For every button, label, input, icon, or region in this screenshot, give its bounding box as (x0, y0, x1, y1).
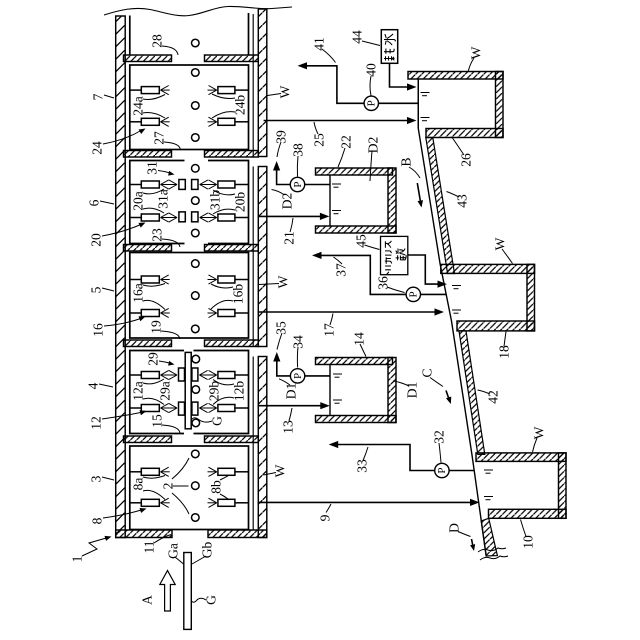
flow arrow chute B (417, 183, 420, 203)
pipe 39 with pump 38 (D2 supply) (305, 184, 330, 186)
baffle bar between chambers 7/6 right (205, 151, 259, 158)
svg-text:6: 6 (87, 199, 102, 206)
svg-text:D2: D2 (366, 137, 381, 154)
svg-text:29b: 29b (207, 381, 222, 402)
kana: alkali, acid (rotated) (385, 241, 406, 274)
pipe 25 (chamber 7 drain to tank 26) (264, 120, 408, 122)
spray nozzles 24a/24b (130, 87, 249, 126)
inner liner line along right wall (252, 14, 254, 530)
svg-text:20b: 20b (233, 192, 248, 213)
svg-text:C: C (420, 368, 435, 377)
glass substrate G (184, 553, 192, 630)
pure-water supply box 44 (381, 30, 397, 64)
svg-text:Ga: Ga (166, 543, 181, 559)
svg-text:26: 26 (459, 153, 474, 167)
bottom wall left (hatched) (116, 530, 172, 538)
svg-text:D: D (447, 523, 462, 533)
brush assembly 29 (chamber 4) (179, 368, 198, 415)
tank 14 (D1) top wall (316, 358, 393, 365)
chamber 6 box (130, 161, 249, 244)
tank 22 (D2) interior left edge (329, 175, 331, 226)
break line at chute D end (478, 548, 508, 560)
svg-text:31: 31 (145, 161, 160, 175)
chamber 4 box (130, 351, 249, 434)
svg-text:29: 29 (146, 352, 161, 366)
svg-text:34: 34 (291, 335, 306, 349)
tank 14 (D1) right wall (388, 358, 396, 423)
svg-text:21: 21 (282, 231, 297, 245)
baffle bar between chambers 4/3 left (124, 436, 172, 443)
drain chute D (hatched wall) (481, 518, 497, 556)
svg-text:P: P (292, 373, 304, 379)
wall left outer (hatched) (116, 16, 126, 538)
chamber 28 side edges (130, 13, 249, 55)
tank 26 bottom wall (426, 129, 503, 138)
pipe 17 (chamber 5 drain to tank 18) (258, 311, 436, 313)
chamber 3 box (130, 446, 249, 530)
svg-text:D2: D2 (280, 193, 295, 210)
svg-text:37: 37 (334, 263, 349, 277)
tank 22 (D2) top wall (316, 168, 393, 175)
conveyor rollers 2 (circles) (192, 39, 200, 521)
svg-text:1: 1 (70, 556, 85, 563)
svg-text:10: 10 (521, 535, 536, 549)
baffle bar above chamber 7 right (205, 55, 259, 62)
tank 14 (D1) bottom wall (316, 416, 397, 423)
svg-text:31a: 31a (156, 189, 171, 209)
svg-text:19: 19 (149, 320, 164, 334)
svg-text:35: 35 (274, 321, 289, 335)
rollers on bar (chamber 4) (192, 355, 200, 426)
svg-text:23: 23 (150, 228, 165, 242)
svg-text:17: 17 (322, 323, 337, 337)
pump 38 (290, 177, 304, 191)
spray nozzles 12a/12b (130, 372, 249, 412)
tank 14 (D1) interior left edge (329, 365, 331, 416)
baffle bar between chambers 7/6 left (124, 151, 172, 158)
svg-text:D1: D1 (284, 383, 299, 400)
glass holder bar G (chamber 4) (185, 352, 191, 428)
svg-text:W: W (493, 237, 508, 250)
svg-text:P: P (408, 291, 420, 297)
pump 32 (435, 463, 449, 477)
cascade inner guide line (chutes B, C, D) (418, 79, 486, 557)
svg-text:13: 13 (281, 420, 296, 434)
svg-text:8b: 8b (209, 480, 224, 494)
brush assembly 31 (chamber 6) (179, 180, 198, 222)
svg-text:Gb: Gb (200, 542, 215, 559)
pump 36 (406, 287, 420, 301)
svg-text:32: 32 (432, 430, 447, 444)
svg-text:44: 44 (350, 30, 365, 44)
svg-text:41: 41 (312, 37, 327, 51)
wall right outer lower (hatched) (258, 357, 267, 538)
pipe 37 with pump 36 (320, 255, 406, 294)
svg-text:25: 25 (312, 133, 327, 147)
baffle bar between chambers 6/5 right (205, 245, 259, 252)
kanji: pure water (rotated) (384, 34, 396, 61)
pipe from box 44 to tank 26 (390, 63, 408, 87)
alkali/acid supply box 45 (381, 236, 408, 274)
svg-text:12: 12 (89, 416, 104, 430)
tank 26 interior left edge (417, 79, 419, 129)
svg-text:5: 5 (89, 286, 104, 293)
baffle bar between chambers 6/5 left (124, 245, 172, 252)
svg-text:4: 4 (86, 382, 101, 389)
baffle bar between chambers 5/4 right (205, 340, 259, 347)
svg-text:12a: 12a (131, 381, 146, 401)
svg-text:16a: 16a (131, 283, 146, 303)
svg-text:8: 8 (90, 517, 105, 524)
chamber 5 box (130, 253, 249, 339)
spray nozzles 8a/8b (130, 468, 249, 506)
tank 10 bottom wall (489, 509, 567, 518)
svg-text:8a: 8a (131, 478, 146, 491)
svg-text:14: 14 (352, 332, 367, 346)
svg-text:24: 24 (90, 141, 105, 155)
svg-text:W: W (278, 85, 293, 98)
pipe 13 (chamber 4 drain to tank 14) (258, 405, 322, 407)
svg-text:16: 16 (91, 323, 106, 337)
svg-text:D1: D1 (405, 382, 420, 399)
svg-text:33: 33 (355, 459, 370, 473)
pipe 41 with pump 40 (379, 102, 419, 104)
chute C / 42 (hatched wall) (459, 331, 485, 455)
svg-text:W: W (276, 275, 291, 288)
svg-text:29a: 29a (158, 381, 173, 401)
flow arrow chute C (446, 391, 450, 401)
pipe 21 (chamber 6 drain to tank 22) (258, 215, 322, 217)
svg-text:7: 7 (91, 93, 106, 100)
svg-text:18: 18 (497, 345, 512, 359)
svg-text:P: P (366, 100, 378, 106)
pipe from box 45 to tank 18 (408, 255, 439, 284)
svg-text:20: 20 (89, 233, 104, 247)
tank 22 (D2) right wall (388, 168, 396, 233)
tank 22 (D2) bottom wall (316, 226, 397, 233)
baffle bar above chamber 7 left (124, 55, 172, 62)
bottom wall right (hatched) (208, 530, 267, 538)
tank 18 right wall (527, 264, 535, 331)
transport direction arrow A (160, 571, 175, 612)
svg-text:20a: 20a (131, 191, 146, 211)
pump 40 (364, 96, 378, 110)
svg-text:P: P (436, 467, 448, 473)
svg-text:22: 22 (339, 135, 354, 149)
svg-text:W: W (532, 426, 547, 439)
spray nozzles 20a/20b (130, 181, 249, 221)
tank 26 right wall (496, 72, 504, 138)
tank 26 top wall (408, 72, 503, 80)
wall right outer upper (hatched) (258, 9, 267, 157)
tank 10 right wall (559, 453, 567, 518)
svg-text:W: W (273, 464, 288, 477)
svg-text:9: 9 (318, 514, 333, 521)
break line (wavy cut at top) (104, 6, 292, 15)
svg-text:40: 40 (364, 63, 379, 77)
chute B / 43 (hatched wall) (426, 138, 455, 274)
flow arrow chute D (472, 539, 474, 548)
baffle bar between chambers 5/4 left (124, 340, 172, 347)
wall right outer middle (hatched) (258, 167, 267, 347)
svg-text:27: 27 (152, 131, 167, 145)
chamber 7 box (130, 65, 249, 150)
tank 18 bottom wall (457, 321, 535, 331)
pipe 35 with pump 34 (D1 supply) (305, 375, 330, 377)
svg-text:42: 42 (486, 390, 501, 404)
svg-text:38: 38 (291, 143, 306, 157)
svg-text:39: 39 (274, 130, 289, 144)
svg-text:B: B (399, 157, 414, 166)
svg-text:31b: 31b (208, 190, 223, 211)
svg-text:W: W (469, 46, 484, 59)
pump 34 (290, 369, 304, 383)
svg-text:3: 3 (89, 475, 104, 482)
pipe 9 (chamber 3 drain to tank 10) (258, 501, 472, 503)
pipe 33 with pump 32 (337, 445, 435, 471)
tank 10 top wall (476, 453, 566, 462)
svg-text:P: P (292, 181, 304, 187)
baffle bar between chambers 4/3 right (205, 436, 259, 443)
svg-text:A: A (140, 595, 155, 605)
tank 18 top wall (441, 264, 535, 273)
spray nozzles 16a/16b (130, 276, 249, 317)
svg-text:15: 15 (150, 414, 165, 428)
